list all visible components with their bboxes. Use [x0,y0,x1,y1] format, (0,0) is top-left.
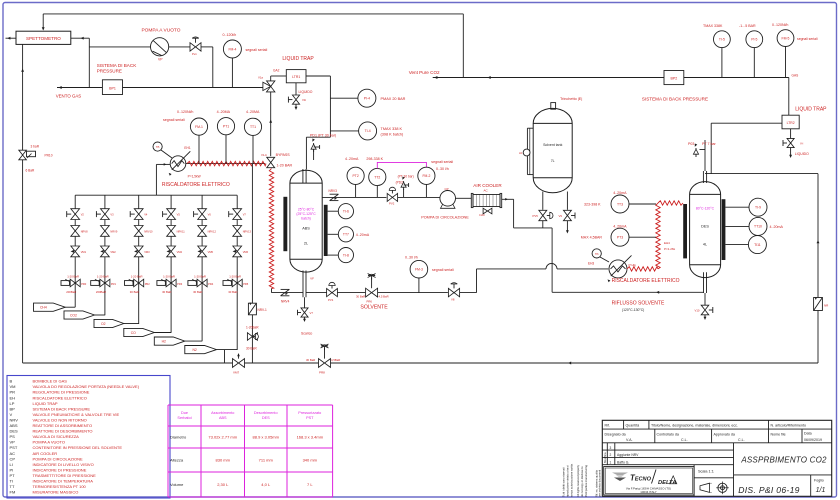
wire TT1 drain vertical [251,164,253,363]
gas cylinder O2 [94,319,124,327]
svg-text:Nome file: Nome file [771,432,786,436]
svg-text:0..30 l/h: 0..30 l/h [436,167,449,171]
thermo TI small EH2 [592,249,601,258]
svg-text:TI-6: TI-6 [343,210,349,214]
gauge TI-5 [714,31,731,48]
wire cylinder O2 to column [124,323,139,325]
wire solvente to EH2 [477,268,547,270]
svg-text:VF: VF [310,277,314,281]
wire LTR2 to DES top [711,122,782,124]
svg-text:(PD2: (PD2 [396,180,403,184]
svg-text:segnali seriali: segnali seriali [431,160,453,164]
regulator PR10 [19,150,27,155]
svg-text:PT3: PT3 [617,236,623,240]
gas cylinder CO [124,328,155,336]
svg-text:C.L.: C.L. [681,438,688,442]
svg-text:Baffo G.: Baffo G. [617,460,629,464]
svg-text:FM-4: FM-4 [228,47,236,51]
gauge PT3 [611,228,629,246]
svg-text:ABS: ABS [302,227,310,231]
box BP1 [102,80,122,95]
relief PD2 [403,189,405,197]
svg-text:FM-2: FM-2 [422,174,430,178]
wire vent co2 line [433,77,664,79]
heater bar ABS left [283,197,287,251]
svg-text:NRV12: NRV12 [208,229,217,233]
svg-text:VM1: VM1 [81,250,87,254]
needle valve VM4 [167,246,176,251]
wire solvente riser [460,292,477,294]
svg-text:4..20mA: 4..20mA [345,157,359,161]
svg-text:AIR COOLER: AIR COOLER [473,183,502,188]
vessel PST solvent tank [533,108,572,192]
flowmeter FM-2 [418,167,435,184]
svg-text:88.9 x 3.05mm: 88.9 x 3.05mm [253,435,280,440]
svg-text:VENTO GAS: VENTO GAS [56,94,82,99]
svg-text:NRV3: NRV3 [329,189,338,193]
svg-text:ASSPRBIMENTO CO2: ASSPRBIMENTO CO2 [740,456,827,465]
svg-text:FM-3: FM-3 [415,268,423,272]
svg-text:Due: Due [181,411,188,415]
needle valve VM2 [101,246,110,251]
svg-text:VP: VP [158,58,163,62]
box BP2 [664,71,684,85]
valve PV2 [387,193,392,201]
svg-text:3: 3 [610,446,612,450]
wire cylinder H2 to column [185,340,202,342]
valve V8 [448,288,454,296]
gauge PI-5 [746,31,763,48]
svg-text:168.3 x 3.4mm: 168.3 x 3.4mm [297,435,324,440]
svg-text:NRV-1: NRV-1 [258,308,268,312]
svg-text:PR4: PR4 [208,282,214,286]
check valve NRV13 [233,226,242,231]
svg-text:4..20mA: 4..20mA [613,225,627,229]
svg-text:GA2: GA2 [273,69,280,73]
wire spettometro left vent [6,37,17,39]
wire cylinder CO to column [154,332,171,334]
legend box [7,376,170,499]
svg-text:NRV11: NRV11 [177,229,186,233]
svg-text:Assorbimento: Assorbimento [211,411,234,415]
svg-text:FM-1: FM-1 [195,125,203,129]
svg-text:PT1: PT1 [223,125,229,129]
check valve NRV8 [71,226,80,231]
valve V3 [101,209,110,214]
wire to pump CP [398,196,440,198]
svg-text:V1-b: V1-b [261,153,267,157]
svg-text:POMPA A VUOTO: POMPA A VUOTO [141,28,180,34]
svg-text:DES: DES [262,416,270,420]
wire manifold column 2 [104,195,106,315]
svg-text:V3: V3 [110,213,114,217]
svg-text:TI-9: TI-9 [755,206,761,210]
svg-text:PD1 (PT 30 bar): PD1 (PT 30 bar) [310,134,336,138]
check valve NRV11 [167,226,176,231]
svg-text:segnali seriali: segnali seriali [246,48,268,52]
svg-text:INDICATORE DI TEMPERATURA: INDICATORE DI TEMPERATURA [33,479,94,484]
gauge TT2 [369,168,386,185]
svg-text:V5: V5 [177,213,181,217]
svg-text:NRV8: NRV8 [81,229,88,233]
svg-text:C.L.: C.L. [738,438,745,442]
svg-text:Desorbimento: Desorbimento [254,411,278,415]
svg-text:340 mm: 340 mm [303,458,318,463]
svg-text:TMAX 338 K: TMAX 338 K [381,127,403,131]
check valve NRV12 [198,226,207,231]
wire manifold column 4 [170,195,172,333]
svg-text:do not copy or disclose to: do not copy or disclose to [580,466,584,497]
wire heated pipe [186,163,265,165]
wire solvente 1 [337,292,365,294]
svg-text:V.A.: V.A. [626,438,632,442]
svg-text:B: B [10,379,13,384]
svg-text:2,30 L: 2,30 L [217,482,229,487]
svg-text:0..120Nl/h: 0..120Nl/h [177,110,193,114]
valve PV1 [306,292,327,294]
wire LTR1 to ABS feed [306,75,330,77]
svg-text:30 BaR: 30 BaR [130,290,139,294]
svg-text:TT: TT [10,484,15,489]
svg-text:2L: 2L [304,242,308,246]
svg-text:1: 1 [610,460,612,464]
svg-text:TI-4: TI-4 [365,129,371,133]
svg-text:0..120Nl/h: 0..120Nl/h [772,23,788,27]
svg-text:INDICATORE DI PRESSIONE: INDICATORE DI PRESSIONE [33,467,87,472]
wire BP2 to LTR2 [684,77,789,79]
wire LTR1 drain [295,83,297,108]
svg-text:323-398 K: 323-398 K [584,203,601,207]
flowmeter FM-4 [223,40,241,58]
svg-text:4,5BaR: 4,5BaR [331,358,340,362]
svg-text:PST: PST [306,416,314,420]
svg-text:SISTEMA DI BACK PRESSURE: SISTEMA DI BACK PRESSURE [33,406,91,411]
svg-text:All rights reserved property: All rights reserved property [576,464,580,497]
heat trace zigzag v to ABS [269,169,273,289]
valve PVn [190,43,196,51]
valve V7 scarico [304,297,306,320]
svg-text:Rif.: Rif. [605,423,610,427]
svg-text:senza autorizzazione scritta: senza autorizzazione scritta [570,463,574,497]
svg-text:1-20 BaR: 1-20 BaR [97,275,109,279]
svg-text:SISTEMA DI BACK PRESSURE: SISTEMA DI BACK PRESSURE [642,97,708,102]
svg-text:1-20 BaR: 1-20 BaR [194,275,206,279]
svg-text:Quantità: Quantità [626,423,640,427]
svg-text:V-l: V-l [800,142,804,146]
svg-text:POMPA A VUOTO: POMPA A VUOTO [33,440,66,445]
check valve NRV10 [134,226,143,231]
svg-text:4,5 BaR: 4,5 BaR [379,295,389,299]
svg-text:RIFLUSSO SOLVENTE: RIFLUSSO SOLVENTE [612,301,665,307]
wire manifold column 6 [236,195,238,350]
valve V6 [198,209,207,214]
spettometro box [16,31,71,44]
svg-text:BYPASS: BYPASS [276,153,291,157]
svg-text:N2: N2 [192,348,196,352]
svg-text:4..20mA: 4..20mA [770,225,784,229]
svg-text:Aggiunte NRV: Aggiunte NRV [617,453,639,457]
svg-text:TI-5: TI-5 [719,38,725,42]
svg-text:REATTORE DI DESORBIMENTO: REATTORE DI DESORBIMENTO [33,429,93,434]
gauge TT3 [611,195,629,213]
wire pump discharge [169,46,190,48]
regulator PR6 [366,288,372,297]
gauge TI-9 [749,198,767,216]
gauge TI11 [748,236,766,254]
svg-text:AC: AC [10,451,16,456]
svg-text:3 baR: 3 baR [31,145,40,149]
nozzle DES top [702,171,704,183]
valve V1a three-way [267,81,275,87]
svg-text:PV2: PV2 [389,202,395,206]
heater EH1 [170,156,186,172]
svg-text:V1a: V1a [258,76,263,80]
needle valve VM6 [233,246,242,251]
needle valve VM3 [134,246,143,251]
check valve NRV-1 [248,303,256,315]
svg-text:Pressurizzato: Pressurizzato [298,411,321,415]
svg-text:RISCALDATORE ELETTRICO: RISCALDATORE ELETTRICO [612,278,680,284]
svg-text:VM7: VM7 [233,371,240,375]
svg-text:Trinchetto |E|: Trinchetto |E| [560,97,582,101]
svg-text:Tutti i diritti sono riservati: Tutti i diritti sono riservati [562,467,566,497]
svg-text:30 BaR: 30 BaR [228,290,237,294]
svg-text:PS: PS [10,434,16,439]
svg-text:EH1: EH1 [184,146,190,150]
svg-text:711 mm: 711 mm [259,458,274,463]
svg-text:batch): batch) [301,216,310,220]
gauge TI-6 [338,204,353,219]
svg-text:LTR2: LTR2 [787,121,795,125]
svg-text:PR1: PR1 [111,282,117,286]
wire top recycle line [43,13,463,15]
svg-text:298-338 K: 298-338 K [366,157,383,161]
pump VP [151,38,169,56]
svg-text:P=1.26k: P=1.26k [664,247,676,251]
wire vent line [57,87,102,89]
svg-text:LIQUIDO: LIQUIDO [299,90,313,94]
svg-text:VALVOLA DO REGOLAZIONE PORTATA: VALVOLA DO REGOLAZIONE PORTATA (NEEDLE V… [33,384,140,389]
wire bottom header [23,362,818,364]
svg-text:EH4: EH4 [664,241,670,245]
flowmeter FM-1 [190,118,207,135]
wire tank outlet right [566,192,568,210]
gas cylinder N2 [185,346,217,354]
svg-text:ABS: ABS [10,423,18,428]
svg-text:Controllato da: Controllato da [657,432,679,436]
svg-text:Serbatoi: Serbatoi [177,416,191,420]
wire spettometro right [71,37,90,39]
heater bar ABS right [324,205,328,256]
svg-text:H2: H2 [162,340,166,344]
svg-text:segnali seriali: segnali seriali [163,118,185,122]
svg-text:PMAX 20 BAR: PMAX 20 BAR [381,97,406,101]
svg-text:POMPA DI CIRCOLAZIONE: POMPA DI CIRCOLAZIONE [421,216,469,220]
svg-text:RISCALDATORE ELETTRICO: RISCALDATORE ELETTRICO [33,395,87,400]
wire magenta TT2-FM2 [377,162,426,168]
svg-text:1-20 BaR: 1-20 BaR [229,275,241,279]
wire manifold column 3 [138,195,140,324]
svg-text:DES: DES [10,429,19,434]
svg-text:30 BaR: 30 BaR [193,290,202,294]
svg-text:VM: VM [10,384,16,389]
svg-text:LTR1: LTR1 [292,75,300,79]
svg-text:RISCALDATORE ELETTRICO: RISCALDATORE ELETTRICO [162,182,230,188]
svg-text:MISURATORE MASSICO: MISURATORE MASSICO [33,490,79,495]
svg-text:30 BaR: 30 BaR [306,358,315,362]
svg-text:Altezza: Altezza [170,458,184,463]
svg-text:per archivio documenti: per archivio documenti [598,470,602,497]
svg-text:06/09/2019: 06/09/2019 [804,438,822,442]
svg-text:CP: CP [10,456,16,461]
svg-text:TI: TI [10,479,14,484]
svg-text:6 BaR: 6 BaR [26,169,36,173]
svg-text:PI-5: PI-5 [751,38,757,42]
nozzle ABS top [302,169,304,183]
check valve NRV4 [272,292,303,294]
heat trace EH2 to DES [627,267,658,271]
svg-text:segnali seriali: segnali seriali [432,268,454,272]
valve V11 liquido [787,138,794,143]
svg-text:VM5: VM5 [208,250,214,254]
wire solvente 2 [378,292,448,294]
flowmeter FM-5 [777,30,794,47]
dimensions table [168,404,333,406]
valve V9 [563,210,571,215]
svg-text:P=1,5kW: P=1,5kW [188,175,201,179]
svg-text:4..20mA: 4..20mA [613,191,627,195]
svg-text:TT2: TT2 [374,175,380,179]
svg-text:FM-5: FM-5 [782,36,790,40]
valve V5 [167,209,176,214]
wire cylinder N2 to column [217,349,238,351]
wire riflusso line [552,291,704,293]
gauge PI-4 [358,89,376,107]
wire tank outlet left [542,192,544,210]
svg-text:Modifica: Modifica [603,452,607,463]
svg-text:NRV10: NRV10 [144,229,153,233]
svg-text:4L: 4L [703,243,707,247]
svg-text:DELTA: DELTA [658,480,676,486]
svg-text:REATTORE DI ASSORBIMENTO: REATTORE DI ASSORBIMENTO [33,423,93,428]
svg-text:PV1: PV1 [328,298,334,302]
svg-text:POMPA DI CIRCOLAZIONE: POMPA DI CIRCOLAZIONE [33,456,83,461]
svg-text:INDICATORE DI LIVELLO VISIVO: INDICATORE DI LIVELLO VISIVO [33,462,94,467]
svg-text:TT1: TT1 [250,125,256,129]
svg-text:830 mm: 830 mm [216,458,231,463]
svg-text:VP: VP [10,440,16,445]
wire manifold header [75,194,237,196]
wire manifold column 1 [74,195,76,307]
wire pump to cooler [456,197,472,199]
air cooler AC [473,195,500,207]
svg-text:CO: CO [131,331,136,335]
svg-text:CP: CP [445,187,449,191]
svg-text:CHO: CHO [479,213,485,217]
svg-text:PR2: PR2 [145,282,151,286]
svg-text:BP: BP [10,406,16,411]
wire V1a to LTR1 [270,76,272,81]
gauge TT7 [338,227,353,242]
svg-text:(PT 30 bar): (PT 30 bar) [398,175,414,179]
svg-text:LIQUID TRAP: LIQUID TRAP [282,56,314,62]
svg-text:VM3: VM3 [144,250,150,254]
svg-text:PR: PR [10,390,16,395]
svg-text:PRESSURE: PRESSURE [97,69,122,74]
svg-text:LI: LI [10,462,13,467]
svg-text:1-20 BaR: 1-20 BaR [163,275,175,279]
check valve NRV9 [101,226,110,231]
svg-text:TMAX 338K: TMAX 338K [703,24,723,28]
svg-text:TT10: TT10 [754,225,762,229]
svg-text:VM2: VM2 [110,250,116,254]
svg-text:V2: V2 [81,213,85,217]
svg-text:segnali seriali: segnali seriali [797,37,818,41]
svg-text:4..20MA: 4..20MA [246,110,260,114]
valve V2 [71,209,80,214]
svg-text:PI: PI [10,467,14,472]
level indicator LI1 [527,127,533,129]
svg-text:BP2: BP2 [671,77,678,81]
check valve NR [814,298,823,311]
svg-text:PT2: PT2 [352,174,358,178]
svg-text:0..30 l/h: 0..30 l/h [405,255,418,259]
svg-text:P03: P03 [688,142,694,146]
svg-text:200BaR: 200BaR [96,290,106,294]
wire DES top to NR line [705,173,818,175]
svg-text:CO2: CO2 [70,314,77,318]
svg-text:MAX 4,5BAR: MAX 4,5BAR [581,236,603,240]
svg-text:1/1: 1/1 [816,487,826,494]
svg-text:(398 K batch): (398 K batch) [381,133,405,137]
relief PD1 [313,148,315,160]
needle valve VM5 [198,246,207,251]
gauge TT1 [244,118,261,135]
regulator PR8 [319,359,325,368]
svg-text:V7: V7 [243,213,247,217]
valve PV5 [539,210,547,215]
svg-text:NRV13: NRV13 [243,229,252,233]
wire cooler outlet [502,198,514,200]
wire cylinder CO2 to column [95,314,105,316]
heater bar DES right [722,199,726,260]
svg-text:AIR COOLER: AIR COOLER [33,451,58,456]
svg-text:PV5: PV5 [533,214,539,218]
svg-text:1-20 BaR: 1-20 BaR [131,275,143,279]
box LTR2 [782,115,799,129]
gauge TI-8 [338,248,353,263]
pump CP [441,205,456,209]
svg-text:CH4: CH4 [40,306,47,310]
svg-text:Approvato da: Approvato da [714,432,735,436]
svg-text:LIQUID TRAP: LIQUID TRAP [795,107,827,113]
gauge PT1 [217,118,234,135]
svg-text:DES: DES [701,225,709,229]
svg-text:EH3: EH3 [588,262,594,266]
svg-text:VM6: VM6 [243,250,249,254]
valve VM7 [233,359,239,368]
svg-text:PR3: PR3 [177,282,183,286]
svg-text:Foglio: Foglio [814,479,824,483]
svg-text:Diametro: Diametro [170,435,187,440]
svg-text:V7: V7 [310,311,314,315]
svg-text:80°C-120°C: 80°C-120°C [696,207,715,211]
svg-text:30 BaR: 30 BaR [246,347,257,351]
svg-text:CONTENITORE IN PRESSIONE DEL S: CONTENITORE IN PRESSIONE DEL SOLVENTE [33,445,123,450]
wire manifold column 5 [201,195,203,341]
svg-text:VM4: VM4 [177,250,183,254]
svg-text:PT 7 bar: PT 7 bar [702,142,717,146]
